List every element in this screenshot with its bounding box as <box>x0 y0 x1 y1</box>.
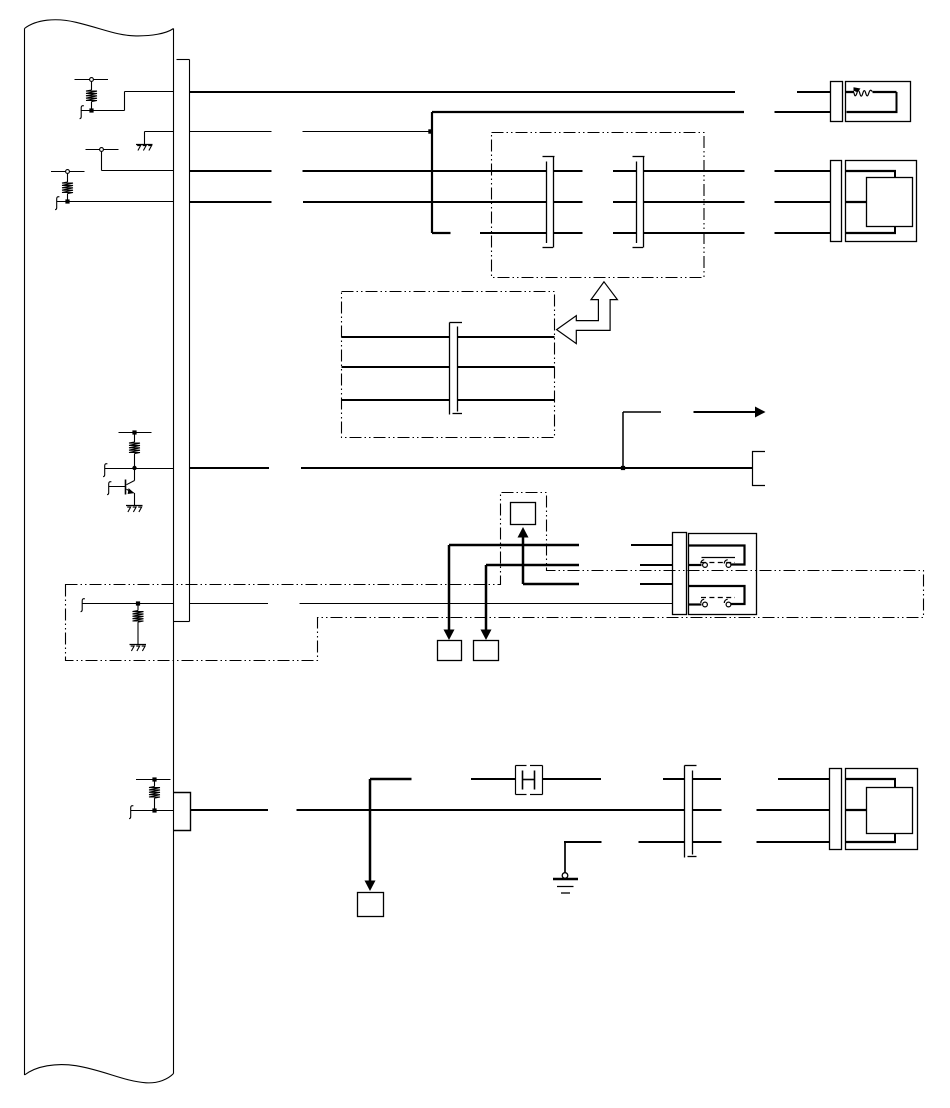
wire (box 2, bottom) <box>342 399 555 401</box>
wire (R5 to connector) <box>131 810 174 812</box>
resistor R1 <box>75 78 109 111</box>
wire continuation hook (wire H left) <box>129 806 133 819</box>
ECU block outline (torn-edge module body) <box>25 20 174 1083</box>
wire branch up from F <box>623 412 661 468</box>
relay connector bracket <box>673 533 687 615</box>
connector (single-pin bracket on ECU, bottom) <box>174 793 191 831</box>
ground (Q1 emitter) <box>126 506 143 513</box>
shield box around small component (dash-dot) + harness region boundary <box>66 493 924 661</box>
relay R (double switch) <box>689 534 757 615</box>
ground (inside module, on wire B) <box>136 132 174 151</box>
actuator M2 (bottom right) <box>830 769 918 850</box>
outer case <box>846 82 911 122</box>
in-line connector J4 (bottom) <box>685 766 697 858</box>
detail call-out arrow (hollow elbow arrow) <box>557 282 618 344</box>
thick bus wire K (y=112) with riser at x=432 <box>432 112 744 233</box>
wire w3 stub to relay <box>640 583 673 585</box>
noise filter F1 (top right, with coil scribble) <box>831 82 911 122</box>
wire G inside module <box>83 603 174 605</box>
inner element box <box>867 788 913 834</box>
wire F (y=468) to pagelink connector <box>190 467 753 469</box>
pagelink connector bracket (wire F end) <box>753 452 766 486</box>
leads <box>846 170 897 172</box>
in-line connector J3 (in box 2) <box>450 323 463 415</box>
element: top lead with coil scribble <box>846 91 855 93</box>
outer case <box>846 769 918 850</box>
wire (R2 to ECU pin) <box>57 201 174 203</box>
wire w2 (y=565) with down arrow <box>481 565 674 640</box>
harness detail box 1 (dash-dot) <box>492 133 705 278</box>
wire A stub to filter <box>797 91 831 93</box>
wire (R1 to ECU pin, then up to wire A) <box>82 92 174 111</box>
in-line connector J2 (in box 1) <box>633 157 645 248</box>
wire J (y=842) with earth ground <box>564 841 830 843</box>
wire (box 2, middle) <box>342 366 555 368</box>
fuse FL (in wire I) <box>516 766 543 795</box>
connector bracket <box>831 161 842 242</box>
wire G (y=603.5) <box>190 603 674 605</box>
wire I (branch, y=779) <box>370 778 830 781</box>
wire branch down with arrow (to body ground plate) <box>365 779 376 891</box>
actuator M1 (right component, upper) <box>831 161 917 242</box>
wire H (y=810) <box>191 809 830 811</box>
junction (R3 / Q1 collector / wire F) <box>132 466 136 470</box>
connector square P2 <box>474 641 499 661</box>
outer case <box>846 161 917 242</box>
transistor Q1 (NPN) <box>109 468 135 506</box>
wire continuation hook (R2) <box>55 197 59 210</box>
wire E (y=233) <box>480 232 831 234</box>
wire continuation hook (wire F left) <box>103 464 107 477</box>
leads <box>846 778 897 780</box>
in-line connector J1 (in box 1) <box>543 157 555 248</box>
wire F inside module <box>105 468 174 470</box>
wire continuation hook (Q1 base) <box>107 482 111 495</box>
arrow (to other system, right) <box>694 407 766 418</box>
ground (R4) <box>130 645 147 652</box>
resistor R5 (bottom) <box>136 777 171 810</box>
junction (R5 / wire H) <box>152 808 156 812</box>
resistor R4 (inside shielded harness box) <box>133 601 144 644</box>
arrow up (into noise filter) <box>518 527 580 584</box>
wire B (y=131.5) <box>190 131 431 133</box>
wire D (y=202) <box>190 201 832 203</box>
relay switch 1 <box>689 546 745 565</box>
resistor R3 (with transistor Q1) <box>119 430 152 468</box>
connector bracket <box>830 769 842 850</box>
relay switch 2 <box>689 586 745 604</box>
junction (wire F / branch) <box>621 466 625 470</box>
connector square P3 <box>358 893 384 917</box>
ECU connector strip <box>174 60 190 622</box>
earth ground symbol <box>553 842 578 893</box>
wire K stub to filter <box>775 111 831 113</box>
inner element box <box>867 178 913 227</box>
wire w1 (y=545) with down arrow <box>444 545 674 640</box>
noise filter box (small square in shield box) <box>511 503 536 525</box>
junction (wire B / thick riser) <box>428 129 432 133</box>
junction (R2 / wire) <box>65 199 69 203</box>
junction (R1 / wire) <box>89 108 93 112</box>
resistor R2 <box>51 170 85 202</box>
wire continuation hook (R1) <box>80 106 84 119</box>
connector bracket <box>831 82 843 122</box>
harness detail box 2 (dash-dot) <box>342 292 555 438</box>
wire C (y=171) <box>190 170 832 172</box>
wire (box 2, top) <box>342 336 555 338</box>
wire A (y=92) <box>190 91 736 93</box>
wire continuation hook (wire G left) <box>81 599 85 612</box>
terminal (open circle pin, mid) <box>86 148 174 171</box>
connector square P1 <box>438 641 462 661</box>
